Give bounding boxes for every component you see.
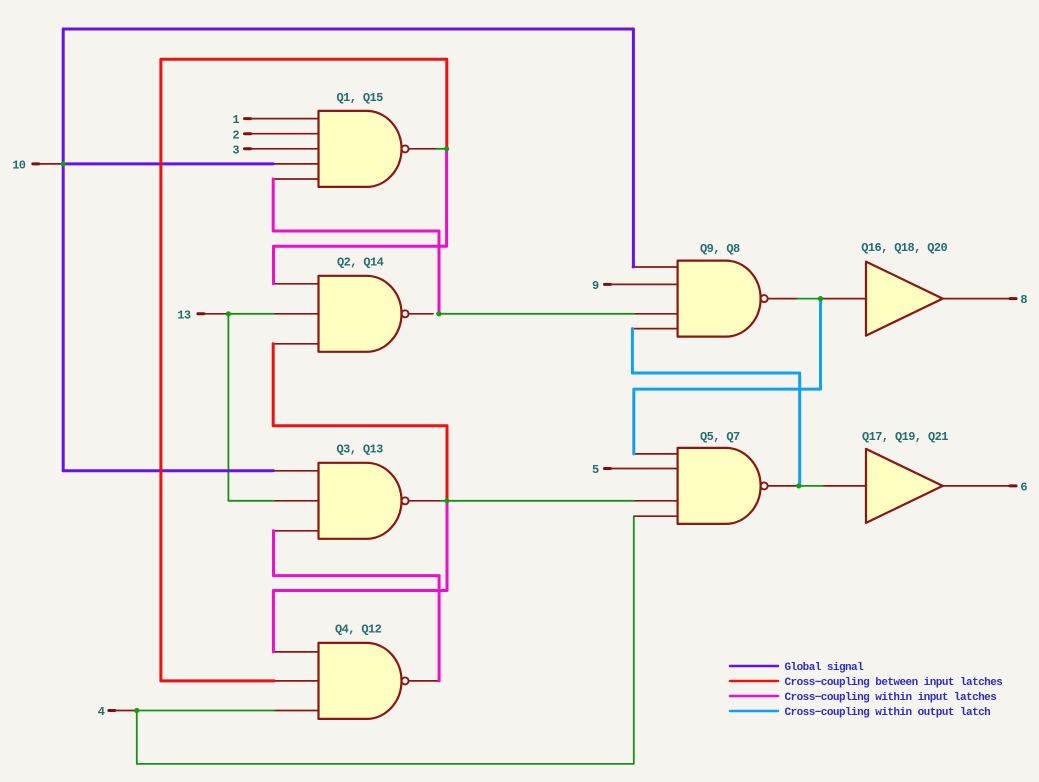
svg-text:Q1, Q15: Q1, Q15 bbox=[337, 91, 384, 105]
pin line Q3 input mid bbox=[274, 500, 319, 502]
wire magenta Q3 input to Q4 output bbox=[274, 531, 440, 681]
pin line Q1 input E (feedback) bbox=[273, 178, 318, 180]
pin line Q1 output bbox=[409, 148, 437, 150]
svg-text:Q3, Q13: Q3, Q13 bbox=[337, 443, 384, 457]
junction Q3 output bbox=[444, 498, 449, 503]
svg-text:Q2, Q14: Q2, Q14 bbox=[337, 255, 384, 269]
pin line Q4 input mid bbox=[274, 680, 318, 682]
pin line Q9 input 3 bbox=[634, 313, 678, 315]
pin line Q5 input 3 bbox=[634, 500, 678, 502]
svg-text:Cross−coupling within output l: Cross−coupling within output latch bbox=[785, 707, 991, 719]
pin line Q9 output bbox=[768, 298, 798, 300]
legend global signal bbox=[730, 662, 864, 674]
svg-text:13: 13 bbox=[177, 308, 191, 322]
wire red Q2 input to Q3 output bbox=[273, 344, 447, 501]
svg-text:Cross−coupling between input l: Cross−coupling between input latches bbox=[785, 677, 1003, 689]
wire blue Q9 input to Q5 output bbox=[632, 329, 799, 486]
buffer Q17, Q19, Q21 bbox=[862, 430, 948, 523]
pin line Q17 input bbox=[823, 485, 866, 487]
wire global signal to Q3 bbox=[63, 469, 273, 472]
nand gate Q3, Q13 bbox=[319, 443, 409, 539]
pin line Q3 output bbox=[409, 500, 441, 502]
nand gate Q1, Q15 bbox=[319, 91, 409, 187]
nand gate Q5, Q7 bbox=[678, 430, 768, 524]
wire pin13 down to Q3 input bbox=[228, 314, 273, 501]
pin 10 bbox=[12, 159, 63, 173]
pin 2 bbox=[232, 128, 318, 142]
svg-text:Global signal: Global signal bbox=[785, 662, 865, 674]
wire red Q1 output to Q4 input bbox=[161, 59, 447, 681]
pin line Q4 input top bbox=[273, 651, 318, 653]
pin line Q5 input 4 bbox=[634, 515, 678, 517]
svg-text:1: 1 bbox=[232, 113, 239, 127]
svg-text:5: 5 bbox=[592, 463, 599, 477]
junction pin10 bbox=[61, 161, 66, 166]
pin 1 bbox=[232, 113, 318, 127]
junction pin4 bbox=[134, 708, 139, 713]
wire pin13 to Q2 input bbox=[228, 313, 273, 315]
pin line Q5 input 1 bbox=[634, 453, 678, 455]
pin line Q2 output bbox=[409, 313, 433, 315]
wire magenta Q1 output to Q2 input bbox=[274, 149, 447, 284]
pin line Q9 input 4 bbox=[634, 328, 678, 330]
pin 9 bbox=[592, 279, 678, 293]
wire Q2 output to Q9 input bbox=[437, 313, 634, 315]
svg-text:Q4, Q12: Q4, Q12 bbox=[335, 623, 382, 637]
pin 13 bbox=[177, 308, 228, 322]
junction Q2 output bbox=[436, 311, 441, 316]
wire magenta Q3 output to Q4 input bbox=[273, 501, 447, 652]
svg-text:9: 9 bbox=[592, 279, 599, 293]
svg-text:Cross−coupling within input la: Cross−coupling within input latches bbox=[785, 692, 997, 704]
svg-text:3: 3 bbox=[232, 143, 239, 157]
pin line Q4 output bbox=[409, 680, 440, 682]
pin line Q16 input bbox=[821, 298, 867, 300]
wire magenta Q1 input to Q2 output bbox=[273, 179, 439, 314]
pin 8 bbox=[940, 293, 1027, 307]
buffer Q16, Q18, Q20 bbox=[861, 241, 947, 336]
wire Q5 output segment bbox=[799, 485, 823, 487]
wire Q9 output segment bbox=[797, 298, 820, 300]
legend cross-coupling within output latch bbox=[730, 707, 990, 719]
nand gate Q4, Q12 bbox=[319, 623, 409, 719]
svg-text:2: 2 bbox=[232, 128, 239, 142]
svg-text:Q17, Q19, Q21: Q17, Q19, Q21 bbox=[862, 430, 948, 444]
wire global signal to Q1 bbox=[63, 162, 273, 165]
pin 6 bbox=[940, 480, 1027, 494]
pin line Q2 input top bbox=[274, 283, 319, 285]
pin line Q5 output bbox=[768, 485, 799, 487]
pin line Q9 input 1 bbox=[632, 266, 677, 268]
junction Q1 output bbox=[444, 146, 449, 151]
svg-text:Q5, Q7: Q5, Q7 bbox=[700, 430, 740, 444]
pin line Q1 input D (from global) bbox=[273, 163, 318, 165]
pin line Q3 input bottom bbox=[274, 530, 319, 532]
pin line Q2 input mid bbox=[273, 313, 318, 315]
svg-text:10: 10 bbox=[12, 159, 26, 173]
junction pin13 bbox=[226, 311, 231, 316]
junction Q9 output bbox=[818, 296, 823, 301]
pin 5 bbox=[592, 463, 678, 477]
pin line Q2 input bottom bbox=[273, 343, 318, 345]
junction Q5 output bbox=[796, 483, 801, 488]
nand gate Q9, Q8 bbox=[678, 242, 768, 337]
svg-text:6: 6 bbox=[1020, 480, 1027, 494]
svg-text:8: 8 bbox=[1020, 293, 1027, 307]
wire pin4 to Q5 input 4 bbox=[137, 516, 634, 764]
wire Q1 output junction segment bbox=[437, 148, 447, 150]
wire pin4 to Q4 input bbox=[137, 710, 274, 712]
wire blue Q9 output to Q5 input bbox=[634, 299, 821, 454]
pin 4 bbox=[98, 705, 137, 719]
svg-text:4: 4 bbox=[98, 705, 105, 719]
nand gate Q2, Q14 bbox=[319, 255, 409, 351]
wire Q3 output to Q5 input bbox=[441, 500, 634, 502]
legend cross-coupling between input latches bbox=[730, 677, 1002, 689]
wire global signal pin10 rail bbox=[63, 29, 633, 471]
svg-text:Q16, Q18, Q20: Q16, Q18, Q20 bbox=[861, 241, 947, 255]
pin line Q3 input top bbox=[274, 470, 319, 472]
pin 3 bbox=[232, 143, 318, 157]
legend cross-coupling within input latches bbox=[730, 692, 996, 704]
pin line Q4 input bottom bbox=[274, 710, 318, 712]
svg-text:Q9, Q8: Q9, Q8 bbox=[700, 242, 740, 256]
